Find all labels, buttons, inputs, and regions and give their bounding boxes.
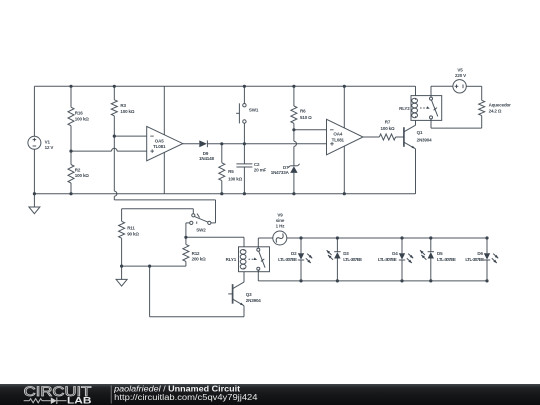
svg-text:100 kΩ: 100 kΩ [381,126,396,131]
svg-text:OA4: OA4 [333,132,342,137]
svg-text:R3: R3 [120,103,126,108]
svg-text:R5: R5 [228,169,234,174]
svg-text:20 mF: 20 mF [254,167,267,172]
svg-text:LTL-307EE: LTL-307EE [343,257,362,262]
svg-text:V5: V5 [457,68,463,73]
svg-text:100 kΩ: 100 kΩ [75,116,90,121]
svg-text:R11: R11 [127,225,135,230]
svg-text:510 Ω: 510 Ω [300,115,312,120]
svg-text:220 V: 220 V [455,73,466,78]
svg-text:12 V: 12 V [45,145,54,150]
svg-text:R6: R6 [300,109,306,114]
svg-text:RLY2: RLY2 [399,106,410,111]
svg-text:RLY1: RLY1 [226,257,237,262]
svg-text:Q1: Q1 [417,130,423,135]
svg-text:http://circuitlab.com/c5qv4y79: http://circuitlab.com/c5qv4y79jj424 [114,393,258,402]
svg-text:LTL-307EE: LTL-307EE [437,257,456,262]
svg-text:R12: R12 [192,251,200,256]
svg-text:24.2 Ω: 24.2 Ω [489,109,502,114]
svg-text:1N4148: 1N4148 [199,156,215,161]
svg-text:100 kΩ: 100 kΩ [228,176,243,181]
svg-text:LTL-307EE: LTL-307EE [378,257,397,262]
svg-text:LTL-307EE: LTL-307EE [465,257,484,262]
svg-text:TL081: TL081 [332,137,345,142]
svg-text:D5: D5 [437,251,443,256]
svg-text:SW1: SW1 [249,108,259,113]
svg-text:2N3904: 2N3904 [246,298,262,303]
svg-text:1N4733A: 1N4733A [271,170,290,175]
svg-text:R16: R16 [75,110,83,115]
svg-text:D3: D3 [343,251,349,256]
svg-text:1 Hz: 1 Hz [276,224,286,229]
svg-text:SW2: SW2 [196,227,206,232]
svg-text:Q3: Q3 [246,292,252,297]
svg-text:V1: V1 [45,139,51,144]
svg-text:200 kΩ: 200 kΩ [192,257,207,262]
svg-text:C2: C2 [254,162,260,167]
svg-text:100 kΩ: 100 kΩ [75,173,90,178]
svg-text:100 kΩ: 100 kΩ [120,109,135,114]
svg-text:R7: R7 [385,119,391,124]
svg-text:LAB: LAB [67,395,92,405]
svg-text:90 kΩ: 90 kΩ [127,231,139,236]
svg-text:TL081: TL081 [153,144,166,149]
svg-text:R2: R2 [75,167,81,172]
svg-text:D2: D2 [291,251,297,256]
svg-text:Aquecedor: Aquecedor [489,103,512,108]
svg-text:D4: D4 [392,251,398,256]
svg-text:V9: V9 [277,213,283,218]
svg-text:LTL-307EE: LTL-307EE [278,257,297,262]
svg-text:sine: sine [276,218,285,223]
svg-text:D6: D6 [477,251,483,256]
svg-text:OA5: OA5 [155,139,164,144]
svg-text:2N3904: 2N3904 [417,137,433,142]
